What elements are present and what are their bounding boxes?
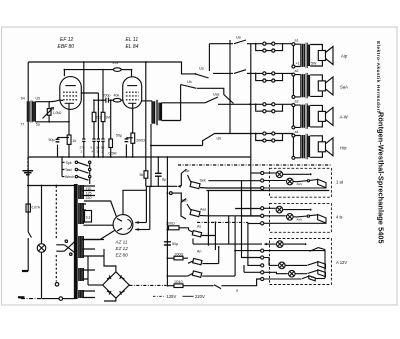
svg-text:+1: +1: [296, 62, 300, 66]
svg-text:EL 84: EL 84: [126, 44, 139, 50]
svg-text:50µ: 50µ: [116, 134, 122, 138]
svg-text:6,3: 6,3: [86, 216, 91, 220]
svg-text:1 at: 1 at: [336, 180, 344, 185]
svg-text:Sek: Sek: [200, 179, 206, 183]
svg-text:125: 125: [86, 192, 92, 196]
svg-text:0,5M: 0,5M: [109, 152, 117, 156]
svg-text:5k: 5k: [140, 173, 144, 177]
svg-text:Hör: Hör: [340, 146, 347, 151]
svg-text:50µ: 50µ: [172, 242, 178, 246]
svg-text:Aip: Aip: [341, 54, 348, 59]
svg-text:As: As: [197, 225, 201, 229]
svg-text:64: 64: [21, 96, 25, 100]
svg-text:a2: a2: [295, 69, 299, 73]
svg-text:EZ 80: EZ 80: [116, 253, 129, 258]
svg-text:110: 110: [86, 187, 92, 191]
svg-text:Ua: Ua: [236, 36, 241, 40]
svg-text:Ü5: Ü5: [36, 96, 41, 100]
svg-text:4 is: 4 is: [336, 215, 343, 220]
svg-text:Ab: Ab: [185, 169, 189, 173]
svg-text:An: An: [197, 250, 201, 254]
svg-text:a1: a1: [295, 39, 299, 43]
svg-text:40k: 40k: [114, 93, 120, 97]
svg-text:Spk: Spk: [66, 161, 72, 165]
svg-text:A-W: A-W: [340, 115, 348, 120]
svg-text:Wech: Wech: [65, 175, 74, 179]
svg-text:Ua: Ua: [199, 67, 204, 71]
svg-text:EL 11: EL 11: [126, 37, 139, 43]
svg-text:Uas: Uas: [213, 93, 220, 97]
svg-text:a: a: [236, 289, 238, 293]
svg-text:A 12V: A 12V: [336, 260, 347, 265]
svg-text:1k: 1k: [73, 139, 77, 143]
svg-text:a3: a3: [295, 100, 299, 104]
svg-text:a4: a4: [295, 130, 299, 134]
svg-text:Elektro-Akustik Hermsdorf: Elektro-Akustik Hermsdorf: [375, 41, 381, 113]
svg-text:EF 12: EF 12: [60, 37, 73, 43]
svg-text:EBF 80: EBF 80: [58, 44, 75, 50]
svg-text:77: 77: [20, 123, 24, 127]
svg-text:125V: 125V: [167, 294, 177, 299]
svg-text:AZ 11: AZ 11: [115, 240, 128, 245]
svg-text:Ub: Ub: [217, 137, 222, 141]
svg-text:0,1: 0,1: [97, 116, 102, 120]
svg-text:AisV: AisV: [297, 182, 303, 186]
svg-text:Tast: Tast: [65, 168, 72, 172]
svg-text:200Ω: 200Ω: [136, 139, 145, 143]
svg-text:AisV: AisV: [297, 218, 303, 222]
svg-text:Sab: Sab: [181, 199, 187, 203]
svg-text:3at: 3at: [311, 275, 315, 279]
svg-text:Aas: Aas: [200, 208, 206, 212]
svg-text:1M: 1M: [106, 116, 111, 120]
svg-text:1,0kΩ: 1,0kΩ: [53, 111, 62, 115]
svg-text:220: 220: [86, 196, 92, 200]
svg-text:1Ω10: 1Ω10: [174, 280, 183, 284]
svg-text:5a: 5a: [36, 122, 40, 126]
svg-text:200Ω: 200Ω: [166, 222, 175, 226]
svg-text:Ub: Ub: [187, 80, 192, 84]
svg-text:5W: 5W: [311, 62, 317, 66]
svg-text:EZ 12: EZ 12: [116, 246, 129, 251]
svg-text:220V: 220V: [195, 294, 205, 299]
svg-text:200p: 200p: [103, 93, 111, 97]
svg-text:47k: 47k: [113, 61, 119, 65]
svg-text:50µ: 50µ: [49, 138, 55, 142]
svg-text:200Ω: 200Ω: [175, 253, 184, 257]
svg-text:8µ: 8µ: [162, 178, 166, 182]
svg-text:SaA: SaA: [340, 85, 348, 90]
svg-text:0,07A: 0,07A: [32, 206, 41, 210]
svg-text:Röntgen-Westhal-Sprechanlage 5: Röntgen-Westhal-Sprechanlage 5405: [377, 112, 386, 244]
